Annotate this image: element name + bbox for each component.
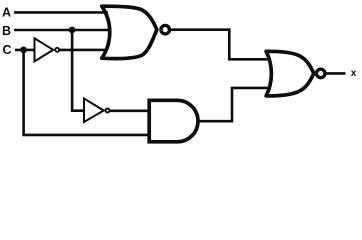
- svg-text:B: B: [2, 24, 11, 38]
- svg-text:x: x: [351, 68, 357, 79]
- svg-text:A: A: [2, 5, 11, 19]
- svg-text:C: C: [3, 43, 12, 57]
